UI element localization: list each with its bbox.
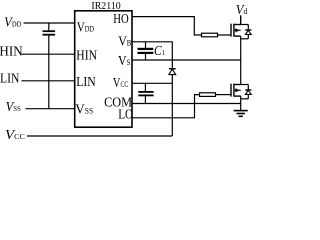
svg-text:C1: C1 <box>154 43 165 58</box>
wire COM to low-side source <box>132 103 241 105</box>
wire LO output to gate resistor <box>132 95 200 118</box>
svg-text:HIN: HIN <box>76 47 97 62</box>
svg-text:LIN: LIN <box>0 71 19 86</box>
diode Q1 body diode <box>241 25 252 39</box>
capacitor C1 bootstrap <box>138 42 154 60</box>
wire HIN input <box>22 53 75 55</box>
svg-text:HO: HO <box>113 11 129 27</box>
IC U1 IR2110 gate driver body <box>75 11 132 127</box>
svg-text:VCC: VCC <box>113 74 129 90</box>
svg-text:HIN: HIN <box>0 43 23 58</box>
svg-text:VDD: VDD <box>77 19 94 34</box>
svg-text:VCC: VCC <box>5 127 25 142</box>
wire HO output to gate resistor <box>132 17 202 35</box>
svg-text:VB: VB <box>118 33 131 49</box>
capacitor C-dd decoupling VDD-VSS <box>43 23 56 109</box>
svg-text:VSS: VSS <box>6 99 21 115</box>
wire VCC bottom rail <box>27 135 172 137</box>
svg-text:VS: VS <box>118 52 130 68</box>
wire Rg1 to Q1 gate <box>218 34 232 36</box>
wire VDD input <box>24 22 75 24</box>
svg-text:LIN: LIN <box>76 74 95 89</box>
wire Vs to half-bridge midpoint <box>132 59 241 61</box>
diode Q2 body diode <box>241 85 252 99</box>
wire Rg2 to Q2 gate <box>216 94 232 96</box>
svg-text:VDD: VDD <box>4 14 21 30</box>
wire Q2 source to ground <box>240 96 242 110</box>
svg-text:VSS: VSS <box>75 101 93 116</box>
diode D1 bootstrap <box>169 69 176 136</box>
wire LIN input <box>22 80 75 82</box>
capacitor C2 VCC decoupling <box>138 83 153 103</box>
ground <box>234 111 248 117</box>
svg-text:LO: LO <box>118 106 133 121</box>
resistor Rg2 low-side gate <box>200 93 216 97</box>
wire Vb to bootstrap diode <box>132 42 172 69</box>
wire VSS input <box>26 108 75 110</box>
transistor Q1 high-side MOSFET <box>231 15 241 36</box>
svg-text:Vd: Vd <box>236 1 248 17</box>
wire VCC pin stub <box>132 82 172 84</box>
resistor Rg1 high-side gate <box>202 33 218 37</box>
wire half-bridge midpoint vertical <box>240 36 242 84</box>
transistor Q2 low-side MOSFET <box>231 84 241 97</box>
